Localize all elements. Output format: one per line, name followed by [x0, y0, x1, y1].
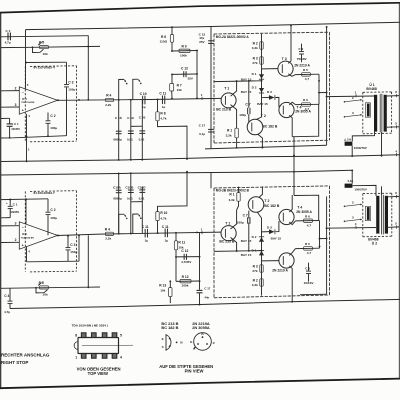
- wire pin5 compensation top: [26, 61, 67, 63]
- resistor R10 4,7k: [157, 221, 159, 234]
- wire T4b emitter up: [289, 195, 292, 212]
- capacitor C18 column: [118, 100, 120, 160]
- svg-text:5: 5: [120, 333, 122, 337]
- svg-text:10/35V: 10/35V: [10, 210, 19, 214]
- svg-text:C10D: C10D: [138, 185, 147, 189]
- wire T1b collector up: [231, 210, 237, 229]
- diode D3b BAY15: [262, 231, 270, 233]
- wire ch2 top bias line: [1, 198, 48, 201]
- wire D3 to T4 base: [275, 97, 279, 107]
- transformer U1 core lines: [379, 94, 381, 133]
- resistor R13 10k to G2: [169, 281, 171, 287]
- svg-text:BAY 15: BAY 15: [241, 77, 252, 81]
- svg-text:C 11: C 11: [142, 225, 149, 229]
- svg-text:C 2: C 2: [305, 267, 310, 271]
- svg-text:R 5: R 5: [39, 40, 44, 44]
- switch S2b: [133, 214, 138, 234]
- module dashed box MO-2A: [214, 32, 330, 34]
- capacitor C3 compensation: [66, 87, 68, 135]
- svg-text:C 3: C 3: [68, 81, 73, 85]
- transistor T1b BC213B: [221, 226, 236, 241]
- wire fuse to B2: [351, 170, 353, 183]
- capacitor C10D column: [141, 187, 143, 234]
- svg-text:2,2k: 2,2k: [105, 103, 111, 107]
- tap arrow 2: [344, 101, 346, 103]
- capacitor C2a 70/16V: [301, 44, 303, 52]
- svg-text:3,3k: 3,3k: [229, 198, 235, 202]
- diode D2b BAY15: [259, 237, 264, 242]
- svg-text:6800p: 6800p: [113, 197, 122, 201]
- svg-text:C 11: C 11: [159, 92, 166, 96]
- wire R11 column down: [175, 250, 177, 282]
- svg-text:D 2: D 2: [252, 235, 257, 239]
- resistor R2b 3,3k: [260, 279, 263, 286]
- svg-text:C 17: C 17: [204, 287, 210, 291]
- svg-text:C 7: C 7: [245, 103, 250, 107]
- resistor R4b 2,2k: [106, 232, 114, 235]
- capacitor C11B series: [144, 229, 146, 238]
- svg-text:D 1: D 1: [252, 248, 257, 252]
- wire U2 winding top stub: [381, 186, 383, 195]
- capacitor C12 electrolytic: [172, 73, 197, 75]
- svg-text:1: 1: [75, 355, 77, 359]
- svg-text:84 222-00002-4: 84 222-00002-4: [34, 66, 56, 70]
- wire T3 emitter: [288, 74, 295, 77]
- svg-text:C 18: C 18: [115, 116, 122, 120]
- resistor R3 27k: [260, 57, 263, 64]
- page border left: [0, 13, 2, 389]
- svg-text:3: 3: [15, 103, 17, 107]
- svg-text:2: 2: [15, 238, 17, 242]
- svg-text:BV468: BV468: [366, 87, 376, 91]
- svg-text:BAY 15: BAY 15: [257, 102, 268, 106]
- resistor R6a 110 ohm: [171, 27, 173, 34]
- resistor R1b 3,3k: [237, 193, 240, 202]
- svg-text:4,7: 4,7: [305, 107, 310, 111]
- svg-text:2N 3055A: 2N 3055A: [192, 325, 210, 330]
- capacitor C10 series: [142, 96, 144, 105]
- svg-text:100k: 100k: [180, 53, 187, 57]
- svg-text:IC 2: IC 2: [22, 232, 27, 236]
- wire R1b leads: [238, 187, 240, 193]
- svg-text:BC 182 B: BC 182 B: [262, 125, 277, 129]
- svg-text:R 13: R 13: [159, 283, 166, 287]
- node C19 bus: [130, 159, 132, 161]
- svg-text:C 19: C 19: [127, 116, 134, 120]
- node rail junctions: [118, 99, 120, 101]
- svg-text:D 2: D 2: [252, 86, 257, 90]
- wire output column ch2 x319: [319, 221, 321, 249]
- svg-text:R 1: R 1: [229, 192, 234, 196]
- svg-text:R 5: R 5: [303, 68, 308, 72]
- wire input pin2 IC1: [1, 90, 20, 92]
- wire opamp vertical input branch: [25, 30, 27, 89]
- switch S2a: [119, 214, 124, 234]
- svg-text:−: −: [22, 226, 24, 230]
- svg-text:IC 1: IC 1: [22, 97, 27, 101]
- wire U2 secondary out: [388, 226, 399, 228]
- feedback network dashed box 84222-00002-4: [30, 65, 77, 68]
- svg-text:T 2: T 2: [264, 199, 269, 203]
- node rail A tap: [171, 26, 173, 28]
- svg-text:44n: 44n: [204, 295, 209, 299]
- node C18 bus: [118, 159, 120, 161]
- wire T4b collector: [289, 221, 295, 225]
- svg-text:C 11: C 11: [162, 225, 169, 229]
- wire C1b to input: [1, 217, 11, 219]
- IC package pins bottom: [81, 354, 86, 359]
- svg-text:10/16V: 10/16V: [304, 281, 315, 285]
- svg-text:84 223-00002-7: 84 223-00002-7: [34, 191, 56, 195]
- wire T3 collector to rail A: [288, 26, 291, 64]
- svg-text:3,3k: 3,3k: [252, 46, 258, 50]
- wire R7 column: [171, 74, 173, 83]
- svg-text:R 6: R 6: [161, 35, 166, 39]
- svg-text:C 2: C 2: [298, 47, 303, 51]
- diode D1 BAY15: [259, 74, 264, 79]
- transistor T2 BC182B: [247, 119, 263, 135]
- svg-text:R 5: R 5: [305, 242, 310, 246]
- svg-text:Ü 2: Ü 2: [372, 241, 377, 246]
- page border bottom: [0, 379, 400, 389]
- terminal tick 1: [355, 94, 357, 97]
- svg-text:100µ: 100µ: [50, 216, 57, 220]
- svg-text:10k: 10k: [43, 52, 48, 56]
- svg-text:C 10: C 10: [140, 92, 147, 96]
- wire bus B2 (mid supply rail): [1, 170, 353, 175]
- svg-text:3,3k: 3,3k: [252, 283, 258, 287]
- capacitor C19 column: [130, 100, 132, 160]
- wire contour ch2: [294, 195, 319, 221]
- wire module bottom corner ch2: [300, 293, 327, 296]
- op-amp IC1 triangle: [19, 87, 57, 114]
- svg-text:27k: 27k: [252, 61, 257, 65]
- wire ch2 pin branch: [25, 199, 27, 224]
- wire B1 to B2 to ch2 box: [293, 155, 295, 195]
- svg-text:TDA 1034-BN ( NE 5534 ): TDA 1034-BN ( NE 5534 ): [72, 323, 108, 327]
- svg-text:3,3k: 3,3k: [226, 133, 232, 137]
- wire output column x319: [318, 74, 320, 104]
- svg-text:R 4: R 4: [105, 227, 110, 231]
- transformer U1 secondary winding bar: [384, 95, 387, 132]
- svg-text:C 7: C 7: [243, 213, 248, 217]
- transformer U2 dashed box: [363, 192, 392, 194]
- wire supply right edge x326: [326, 27, 328, 145]
- wire D-column: [256, 34, 261, 120]
- resistor R6c 4,7: [296, 220, 320, 222]
- svg-text:27k: 27k: [252, 269, 257, 273]
- svg-text:BAY 15: BAY 15: [241, 253, 252, 257]
- switch S1a: [119, 79, 124, 100]
- wire feedback contour: [294, 104, 319, 136]
- capacitor C4b: [9, 288, 11, 301]
- wire x294 link B2 to module ch2: [293, 172, 295, 196]
- svg-text:BC 213 B: BC 213 B: [216, 107, 231, 111]
- switch S1b: [133, 79, 138, 100]
- wire fuse to B1: [351, 146, 353, 156]
- svg-text:TOP VIEW: TOP VIEW: [88, 371, 108, 376]
- IC package pins top: [81, 333, 86, 338]
- wire T1 emitter up: [231, 81, 237, 96]
- node C20 bus: [141, 159, 143, 161]
- wire supply right edge ch2 x326: [326, 196, 328, 294]
- svg-text:R 10: R 10: [160, 211, 167, 215]
- capacitor C12b electrolytic: [176, 256, 200, 258]
- svg-text:−: −: [22, 91, 24, 95]
- capacitor C13 on supply: [208, 40, 214, 42]
- fuse Si1: [345, 142, 353, 146]
- wire IC2 pin4 down: [26, 247, 28, 262]
- svg-text:E: E: [190, 340, 192, 344]
- svg-text:1000/70V: 1000/70V: [354, 146, 368, 150]
- wire bias line y81: [214, 80, 262, 83]
- wire divider column ch2: [199, 232, 201, 289]
- transistor T4b 2N3055A: [279, 209, 294, 224]
- resistor R6b 4,7 emitter: [296, 103, 320, 105]
- capacitor C11D series: [164, 229, 166, 238]
- svg-text:R 12: R 12: [182, 275, 189, 279]
- resistor R8 4,7k: [157, 99, 159, 111]
- svg-text:E: E: [162, 337, 164, 341]
- node C12 ends: [171, 73, 173, 75]
- capacitor C7b 100u: [248, 223, 250, 251]
- node opamp output: [57, 99, 59, 101]
- svg-text:BC 182 B: BC 182 B: [161, 325, 178, 330]
- module dashed box MO-2B: [214, 186, 330, 188]
- page border right: [398, 3, 400, 379]
- wire output stub to bus: [319, 92, 327, 94]
- page border top: [0, 3, 400, 13]
- feedback dashed box 84223-00002-7: [30, 190, 77, 193]
- transformer U2 tap block: [365, 206, 370, 220]
- svg-text:4,7: 4,7: [307, 251, 312, 255]
- svg-text:10k: 10k: [43, 293, 48, 297]
- capacitor C10A column: [118, 174, 120, 234]
- svg-text:C 12: C 12: [181, 249, 188, 253]
- wire T1 collector down: [231, 105, 237, 129]
- svg-text:RECHTER ANSCHLAG: RECHTER ANSCHLAG: [1, 352, 50, 357]
- tap arrow 3 ch2: [344, 221, 346, 223]
- trimmer R5 10k: [40, 46, 49, 49]
- svg-text:8: 8: [75, 333, 77, 337]
- svg-text:C 12: C 12: [181, 67, 188, 71]
- svg-text:+: +: [22, 109, 24, 113]
- svg-text:R 3: R 3: [253, 57, 258, 61]
- svg-text:4,7/35V: 4,7/35V: [181, 260, 191, 264]
- node pin4 bus B1: [26, 160, 28, 162]
- svg-text:C10A: C10A: [113, 186, 122, 190]
- wire ch2 output elbow: [78, 235, 80, 261]
- svg-text:C 4: C 4: [4, 294, 9, 298]
- wire R5 feedback line: [1, 46, 100, 47]
- transistor T2b BC182B: [248, 197, 264, 213]
- svg-text:4,7k: 4,7k: [160, 216, 166, 220]
- svg-text:R 6: R 6: [303, 98, 308, 102]
- IC package center line: [82, 344, 133, 346]
- wire bus B1 (mid ground rail): [1, 155, 400, 162]
- svg-text:150p: 150p: [70, 250, 77, 254]
- wire T5 base ch2: [262, 260, 279, 262]
- supply line x211 channel1: [210, 27, 212, 149]
- wire U1 winding return to B1: [381, 132, 383, 156]
- fuse Si2: [345, 184, 353, 188]
- resistor R11 10k: [175, 233, 177, 241]
- wire C10B-C10D link: [131, 201, 143, 203]
- wire U1 secondary out terminal 5: [387, 126, 400, 128]
- svg-text:1µ: 1µ: [145, 239, 149, 243]
- wire T2 emitter to rail: [258, 134, 263, 147]
- svg-text:D 3: D 3: [267, 90, 272, 94]
- capacitor C11 series: [161, 96, 163, 105]
- wire T5 emitter: [289, 249, 295, 256]
- capacitor C2b: [47, 199, 49, 212]
- svg-text:+: +: [6, 201, 8, 205]
- svg-text:1µ: 1µ: [162, 105, 166, 109]
- wire signal rail channel2: [58, 232, 222, 235]
- svg-text:70/16V: 70/16V: [297, 57, 308, 61]
- svg-text:100µ: 100µ: [50, 126, 57, 130]
- svg-text:C 20: C 20: [139, 116, 146, 120]
- wire divider column x197: [196, 51, 198, 99]
- svg-text:D 1: D 1: [252, 72, 257, 76]
- svg-text:3: 3: [15, 222, 17, 226]
- diode D1b BAY15: [259, 251, 264, 256]
- svg-text:RIGHT STOP: RIGHT STOP: [1, 360, 28, 365]
- svg-text:BAY 15: BAY 15: [241, 239, 252, 243]
- wire fuse to U2 winding: [352, 185, 376, 196]
- svg-text:4,7: 4,7: [305, 77, 310, 81]
- wire D3b to T4b base: [275, 221, 279, 232]
- svg-text:25V: 25V: [188, 77, 193, 81]
- supply stub channel2: [210, 173, 212, 188]
- transformer U1 tap block: [365, 103, 370, 117]
- resistor R9 100k horizontal: [172, 50, 197, 53]
- wire input pin3 IC1: [1, 106, 20, 108]
- terminal tick bus B1 right: [396, 153, 398, 156]
- wire x294 down to B1: [292, 136, 294, 138]
- node R8 bus: [186, 158, 188, 160]
- resistor R7 10k: [170, 84, 174, 92]
- svg-text:C 17: C 17: [199, 124, 206, 128]
- resistor R2 3,3k: [260, 42, 263, 49]
- transistor T4 2N3055A: [279, 102, 294, 117]
- op-amp IC2 triangle: [19, 222, 57, 249]
- svg-text:T 3: T 3: [282, 57, 287, 61]
- svg-text:4,7µ: 4,7µ: [4, 310, 10, 314]
- transformer U2 core lines: [381, 195, 383, 235]
- capacitor C10B column: [130, 173, 132, 233]
- wire ch2 feedback vertical: [87, 235, 89, 287]
- wire input pin3 IC2: [1, 241, 20, 243]
- wire T4 emitter down: [289, 115, 292, 136]
- capacitor C2: [47, 113, 49, 121]
- svg-text:R 11: R 11: [178, 240, 185, 244]
- wire T1b emitter down: [231, 237, 237, 251]
- svg-text:10k: 10k: [160, 288, 165, 292]
- capacitor C20 column: [141, 100, 143, 160]
- transformer U1 dashed box: [363, 91, 392, 93]
- wire U1 to fuse: [352, 132, 374, 142]
- wire T4 collector: [289, 102, 295, 105]
- svg-text:BAY 15: BAY 15: [271, 236, 282, 240]
- svg-text:100µ: 100µ: [239, 113, 246, 117]
- tap arrow 2 ch2: [344, 206, 346, 208]
- svg-text:R 4: R 4: [106, 94, 111, 98]
- wire transformer feed ch2: [327, 227, 376, 230]
- svg-text:4,7µ: 4,7µ: [5, 41, 11, 45]
- svg-text:0,01: 0,01: [127, 137, 133, 141]
- wire D-column ch2: [257, 212, 261, 296]
- svg-text:2,2k: 2,2k: [105, 237, 111, 241]
- svg-text:0,01: 0,01: [139, 196, 145, 200]
- svg-text:R 1: R 1: [227, 128, 232, 132]
- wire C19-C20 link: [131, 125, 143, 127]
- module input tick ch2: [201, 231, 203, 234]
- node feedback/output: [87, 99, 89, 101]
- wire input pin2 IC2: [1, 225, 20, 227]
- diode D2 BAY15: [259, 88, 264, 93]
- svg-text:4: 4: [120, 355, 122, 359]
- resistor R4 2,2k: [106, 98, 114, 101]
- svg-text:150p: 150p: [68, 88, 75, 92]
- wire ground line under opamp: [1, 136, 67, 138]
- capacitor C17b on divider column: [197, 289, 203, 291]
- transformer U1 primary winding bar: [374, 95, 377, 132]
- wire IC1 pin4 down to bus B1: [26, 114, 28, 161]
- wire R1 to rail: [236, 138, 238, 148]
- resistor R1 3,3k: [235, 128, 238, 138]
- node under opamp: [9, 137, 11, 139]
- svg-text:C 2: C 2: [50, 114, 55, 118]
- node R5 left: [32, 46, 34, 48]
- wire U2 upper terminal: [388, 195, 399, 197]
- svg-text:MO-2A 84221-00002 A: MO-2A 84221-00002 A: [216, 35, 250, 39]
- diode D3 BAY15: [262, 96, 270, 98]
- wire supply rail top (channel 1): [26, 22, 400, 29]
- svg-text:T 1: T 1: [225, 222, 230, 226]
- svg-text:BAY 15: BAY 15: [241, 90, 252, 94]
- node IC2 output: [57, 235, 59, 237]
- svg-text:0,01: 0,01: [139, 137, 145, 141]
- svg-text:C 2: C 2: [50, 208, 55, 212]
- svg-text:0,01: 0,01: [127, 196, 133, 200]
- svg-text:4,7: 4,7: [307, 223, 312, 227]
- svg-text:D 3: D 3: [267, 225, 272, 229]
- trimmer R5b 10k: [1, 287, 100, 288]
- svg-text:4,7k: 4,7k: [160, 117, 166, 121]
- svg-text:R 9: R 9: [182, 45, 187, 49]
- svg-text:25V: 25V: [199, 40, 204, 44]
- wire signal rail channel1: [58, 98, 222, 100]
- wire channel1 module ground rail: [205, 145, 327, 149]
- capacitor C1 input electrolytic: [1, 117, 10, 119]
- wire feedback vertical to output: [87, 36, 89, 100]
- resistor R12 100k: [176, 280, 200, 282]
- svg-text:2N 2219 A: 2N 2219 A: [294, 64, 310, 68]
- wire rail B upper: [1, 36, 89, 37]
- svg-text:T 1: T 1: [224, 87, 229, 91]
- svg-text:2N 2219 A: 2N 2219 A: [272, 268, 288, 272]
- transformer U2 primary winding bar: [376, 196, 379, 234]
- wire ch2 under-line: [27, 260, 80, 263]
- wire U1 primary right terminal 6: [387, 95, 400, 97]
- svg-text:C 4: C 4: [6, 29, 11, 33]
- capacitor C7 100u: [248, 81, 250, 108]
- svg-text:TDA 1034 BN: TDA 1034 BN: [21, 236, 34, 239]
- capacitor C17 on supply: [208, 128, 214, 130]
- IC package DIP-8 body: [78, 338, 119, 354]
- svg-text:C10B: C10B: [125, 185, 134, 189]
